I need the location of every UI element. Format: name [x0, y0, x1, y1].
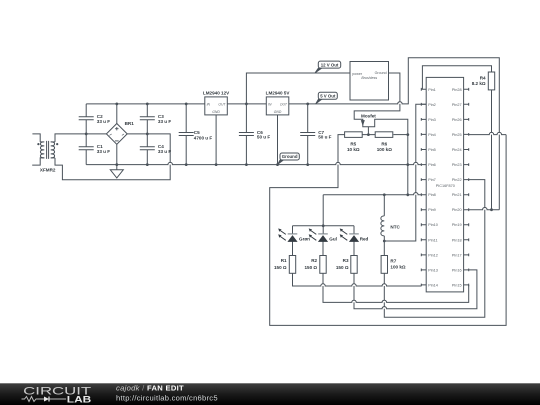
svg-text:Pin18: Pin18	[452, 238, 462, 242]
LED Gul	[318, 233, 328, 235]
wire: rail between regulators	[227, 103, 266, 105]
svg-text:Pin22: Pin22	[452, 178, 462, 182]
svg-text:OUT: OUT	[280, 103, 288, 107]
wire: Pin8 ground row with hop, down to yellow LED	[323, 193, 421, 234]
svg-text:Grøn: Grøn	[299, 236, 310, 241]
svg-text:8.2 kΩ: 8.2 kΩ	[472, 81, 486, 86]
svg-text:Pin2: Pin2	[428, 103, 436, 107]
wire: LM2940 12V GND riser	[215, 115, 217, 165]
resistor R7	[381, 256, 387, 274]
svg-text:Pin8: Pin8	[428, 193, 436, 197]
svg-text:5 V Out: 5 V Out	[320, 94, 336, 99]
capacitor C6	[239, 133, 254, 136]
footer bar	[0, 383, 540, 405]
svg-text:LAB: LAB	[67, 395, 92, 405]
net flag 12 V Out	[315, 68, 322, 73]
wire: Pin25 row with hops	[469, 132, 506, 134]
wire: R1 bottom to Pin14 with hops	[293, 273, 422, 286]
svg-text:Gul: Gul	[329, 236, 337, 241]
wire: Pin20 supply row with hop	[469, 207, 500, 209]
wire hop overlays	[398, 102, 402, 104]
svg-text:50 u F: 50 u F	[318, 135, 331, 140]
svg-text:150 Ω: 150 Ω	[304, 265, 317, 270]
capacitor C1	[79, 147, 94, 150]
svg-text:cajodk / FAN EDIT: cajodk / FAN EDIT	[116, 384, 184, 393]
svg-text:GND: GND	[212, 110, 220, 114]
svg-text:NTC: NTC	[390, 225, 400, 230]
capacitor C7	[300, 133, 315, 136]
svg-text:12 V Out: 12 V Out	[321, 62, 339, 67]
svg-text:LM2940 5V: LM2940 5V	[266, 90, 291, 95]
svg-text:Pin11: Pin11	[428, 238, 437, 242]
svg-text:Pin9: Pin9	[428, 208, 436, 212]
voltage regulator LM2940 12V	[205, 97, 228, 115]
wire: NTC bottom to Pin2 via right vertical	[384, 104, 426, 241]
svg-text:PIC16F870: PIC16F870	[436, 184, 455, 188]
svg-text:XFMR2: XFMR2	[40, 167, 56, 172]
svg-text:Pin17: Pin17	[452, 253, 462, 257]
svg-text:150 Ω: 150 Ω	[274, 265, 287, 270]
resistor R4	[488, 72, 494, 90]
svg-text:33 u F: 33 u F	[97, 149, 110, 154]
svg-text:Pin13: Pin13	[428, 268, 438, 272]
resistor R3	[351, 256, 357, 274]
wire: C5 vertical	[185, 104, 187, 165]
wire: bridge + output riser	[116, 104, 118, 124]
net flag Ground	[278, 160, 284, 165]
resistor R5	[345, 132, 363, 138]
svg-text:Pin7: Pin7	[428, 178, 436, 182]
svg-text:BR1: BR1	[125, 121, 135, 126]
bridge rectifier BR1	[106, 124, 127, 145]
wire: NTC top riser	[383, 195, 385, 216]
svg-text:LM2940 12V: LM2940 12V	[203, 90, 230, 95]
svg-text:Pin25: Pin25	[452, 133, 462, 137]
wire: C6 vertical	[245, 104, 247, 165]
svg-text:33 u F: 33 u F	[158, 119, 171, 124]
wire: Pin1 riser to R4 top	[422, 66, 491, 90]
capacitor C3	[140, 117, 155, 120]
svg-text:Pin27: Pin27	[452, 103, 462, 107]
svg-text:Pin4: Pin4	[428, 133, 436, 137]
LED Gr&#248;n	[288, 233, 298, 235]
wire: LED cathode leads to resistors	[293, 241, 355, 255]
svg-text:150 Ω: 150 Ω	[336, 265, 349, 270]
resistor R1	[289, 256, 295, 274]
wire: R2 bottom to Pin15 with hops	[323, 273, 469, 302]
wire: R7 bottom to Pin22	[384, 180, 485, 318]
ground symbol	[110, 165, 123, 178]
resistor R2	[320, 256, 326, 274]
svg-text:Ground: Ground	[282, 154, 298, 159]
svg-text:Pin26: Pin26	[452, 118, 462, 122]
wire: C7 vertical	[307, 104, 309, 165]
wire: R4 bottom lead to Pin20 row	[491, 90, 493, 210]
svg-text:IN: IN	[268, 103, 272, 107]
wire: R5 left to Pin25 long loop	[270, 135, 506, 326]
svg-text:Ground: Ground	[375, 71, 387, 75]
capacitor C4	[140, 147, 155, 150]
capacitor C5	[179, 133, 194, 136]
svg-text:Pin23: Pin23	[452, 163, 462, 167]
wire: transformer secondary bottom return loop to bridge right	[55, 134, 170, 180]
wire: LM2940 5V GND riser	[277, 115, 279, 165]
svg-text:Pin24: Pin24	[452, 148, 462, 152]
svg-text:Pin28: Pin28	[452, 88, 462, 92]
svg-text:R7: R7	[390, 259, 396, 264]
wire: LED anode top rail	[293, 226, 355, 234]
svg-text:R4: R4	[480, 76, 486, 81]
op IC U1 PIC16F870	[426, 77, 463, 292]
svg-text:C5: C5	[194, 130, 200, 135]
capacitor C2	[79, 117, 94, 120]
net flag 5 V Out	[316, 99, 322, 104]
svg-text:4700 u F: 4700 u F	[194, 135, 213, 140]
wire: fan ground / mosfet net down to ground and Pin8 row	[354, 73, 408, 195]
svg-text:Pin12: Pin12	[428, 253, 438, 257]
svg-text:100 kΩ: 100 kΩ	[377, 147, 392, 152]
svg-text:Pin6: Pin6	[428, 163, 436, 167]
svg-text:33 u F: 33 u F	[158, 149, 171, 154]
svg-text:100 kΩ: 100 kΩ	[390, 265, 405, 270]
svg-text:Pin3: Pin3	[428, 118, 436, 122]
wire: bridge - riser to ground rail	[116, 144, 118, 164]
junction dots	[115, 103, 118, 106]
svg-text:Pin15: Pin15	[452, 283, 462, 287]
wire: 12V branch to fan power	[246, 73, 350, 104]
wire: transformer secondary top to bridge left	[55, 134, 106, 142]
svg-text:OUT: OUT	[218, 103, 226, 107]
svg-text:Pin21: Pin21	[452, 193, 462, 197]
svg-text:Mosfet: Mosfet	[361, 114, 376, 119]
svg-text:R3: R3	[343, 258, 349, 263]
wire: C3/C4 vertical	[146, 104, 148, 165]
wire: R3 bottom to Pin16 with hop	[354, 270, 477, 309]
voltage regulator LM2940 5V	[266, 97, 289, 115]
brushless fan module	[350, 62, 389, 101]
svg-text:Pin16: Pin16	[452, 268, 462, 272]
svg-text:33 u F: 33 u F	[97, 119, 110, 124]
svg-text:R2: R2	[311, 258, 317, 263]
svg-text:Pin1: Pin1	[428, 88, 436, 92]
svg-text:Pin10: Pin10	[428, 223, 438, 227]
wire: R5-R6 middle link with tap	[362, 127, 375, 135]
svg-text:R1: R1	[281, 258, 287, 263]
svg-text:Pin20: Pin20	[452, 208, 462, 212]
svg-text:Pin5: Pin5	[428, 148, 436, 152]
svg-text:10 kΩ: 10 kΩ	[347, 147, 360, 152]
svg-text:Brushless: Brushless	[361, 76, 377, 80]
thermistor NTC	[381, 216, 384, 236]
LED Red	[349, 233, 359, 235]
svg-text:Pin14: Pin14	[428, 283, 438, 287]
wire: top DC rail left segment	[86, 103, 205, 105]
wire: left capacitor-bank vertical (C2/C1)	[85, 104, 87, 165]
svg-text:Red: Red	[360, 236, 369, 241]
wire: R6 right to ground vertical	[393, 134, 407, 136]
svg-text:IN: IN	[207, 103, 211, 107]
svg-text:Pin19: Pin19	[452, 223, 462, 227]
svg-text:http://circuitlab.com/cn6brc5: http://circuitlab.com/cn6brc5	[116, 393, 218, 402]
svg-text:GND: GND	[274, 110, 282, 114]
wire: 5V rail from regulator to right with hop over fan-ground, riser to top-right feed	[289, 58, 500, 210]
wire: R7 top lead	[383, 241, 385, 256]
wire: ground bottom rail with hops	[86, 162, 421, 164]
transformer XFMR2	[32, 134, 55, 165]
resistor R6	[375, 132, 393, 138]
svg-text:50 u F: 50 u F	[257, 135, 270, 140]
